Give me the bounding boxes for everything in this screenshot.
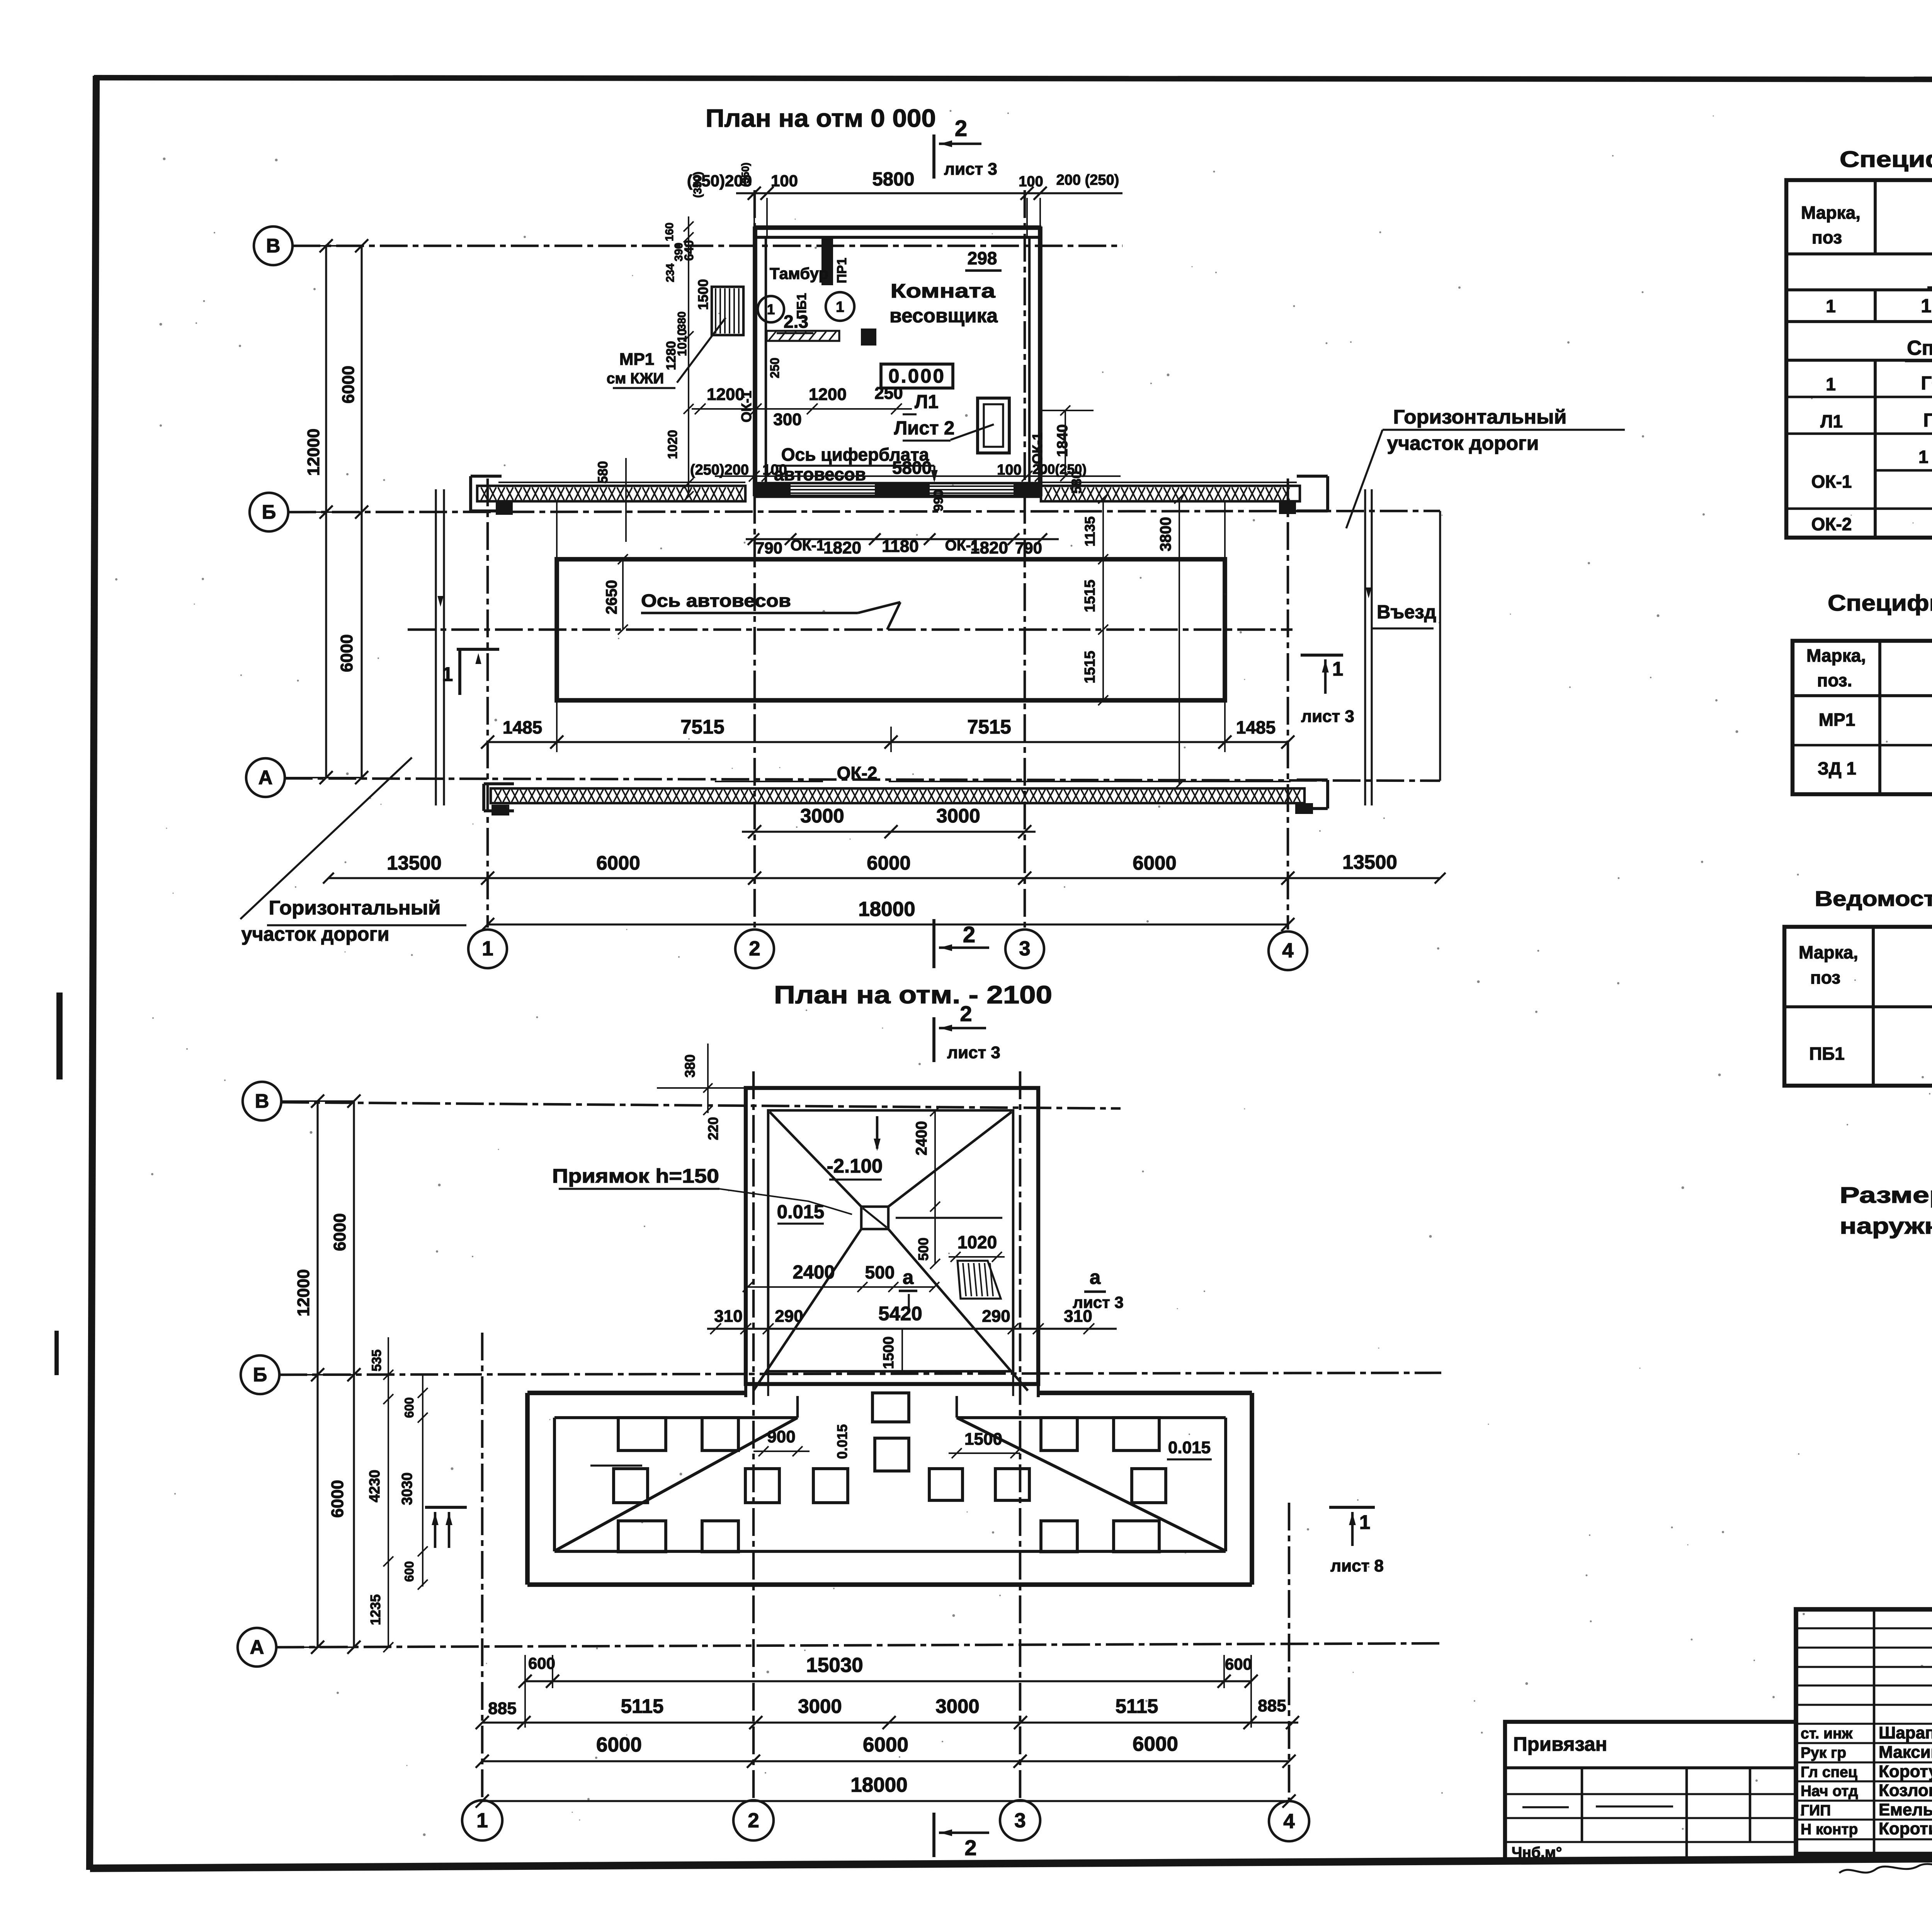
lower plan section marker 2 sheet 3 (top) [932, 1017, 935, 1062]
lower dim row 600 15030 600 [525, 1680, 1251, 1682]
table 1 horizontal lines [1786, 252, 1932, 255]
lower plan dim line 12000 (left) [316, 1101, 318, 1647]
sheet frame bottom border [90, 1855, 1932, 1868]
foundation notch verticals [796, 1396, 799, 1418]
svg-text:100: 100 [762, 462, 787, 478]
upper plan axis line В [293, 245, 1122, 247]
upper plan dim line 6000 segments (left) [361, 246, 362, 778]
svg-text:(250)200: (250)200 [690, 462, 749, 478]
svg-text:6000: 6000 [867, 852, 910, 874]
upper plan section marker 2 sheet 3 (top) [932, 134, 935, 179]
svg-text:250: 250 [874, 384, 903, 403]
svg-text:(350): (350) [692, 172, 704, 198]
table 1 outer box [1786, 180, 1932, 538]
svg-text:ОК-1: ОК-1 [791, 537, 825, 554]
svg-text:ПБ1: ПБ1 [1809, 1044, 1845, 1064]
svg-text:2.3: 2.3 [784, 312, 808, 332]
scan streak left edge lower [54, 1331, 59, 1375]
svg-text:Коротун: Коротун [1879, 1762, 1932, 1781]
upper plan axis line А [285, 778, 1440, 781]
band Б left end bracket [469, 476, 472, 511]
table 1 vertical lines header [1874, 180, 1877, 254]
foundation diagonal left [555, 1418, 798, 1551]
dim 3800 vertical [1179, 499, 1180, 785]
svg-text:ОК-1: ОК-1 [738, 391, 754, 422]
lower plan small dim column 600 3030 600 [422, 1375, 423, 1587]
upper plan column circle 1 [468, 930, 507, 968]
svg-text:1500: 1500 [881, 1336, 897, 1369]
title block signature grid horizontals [1796, 1627, 1932, 1629]
svg-text:1.038 1 - 1, вып. 1: 1.038 1 - 1, вып. 1 [1921, 296, 1932, 317]
section mark 1 (left of platform) [457, 648, 499, 651]
svg-text:лист 8: лист 8 [1330, 1556, 1384, 1575]
svg-text:Ось автовесов: Ось автовесов [641, 591, 791, 611]
svg-text:Марка,: Марка, [1801, 203, 1861, 223]
svg-text:Чнб,м°: Чнб,м° [1512, 1844, 1562, 1861]
tambour partition pier [821, 238, 833, 285]
svg-text:Л1: Л1 [1820, 411, 1843, 431]
svg-text:6000: 6000 [328, 1480, 347, 1518]
svg-text:План на отм 0 000: План на отм 0 000 [706, 104, 936, 132]
upper plan axis circle В [254, 226, 293, 265]
band А right end bracket [1326, 780, 1329, 809]
privyazan dashes [1522, 1806, 1569, 1808]
svg-text:лист 3: лист 3 [944, 160, 997, 179]
svg-text:6000: 6000 [330, 1213, 349, 1251]
grille МР1 hatched rect [712, 287, 743, 335]
svg-text:6000: 6000 [337, 634, 356, 672]
svg-text:18000: 18000 [850, 1774, 907, 1796]
svg-text:весовщика: весовщика [889, 305, 998, 327]
lower plan axis circle А [238, 1628, 276, 1667]
svg-text:автовесов: автовесов [774, 464, 866, 484]
svg-text:6000: 6000 [596, 852, 640, 874]
svg-text:12000: 12000 [294, 1269, 313, 1316]
svg-text:6000: 6000 [863, 1733, 908, 1756]
upper plan column circle 2 [735, 930, 774, 968]
upper plan dim line 12000 (left) [325, 246, 327, 778]
svg-text:5800: 5800 [892, 458, 932, 478]
upper plan column circle 3 [1005, 930, 1044, 968]
hatch luk Л1 rectangle [978, 398, 1009, 453]
lower plan dim line 6000 segments (left) [353, 1101, 355, 1647]
svg-text:Марка,: Марка, [1806, 645, 1866, 666]
svg-text:300: 300 [773, 410, 801, 429]
platform edge extension lines [556, 501, 558, 559]
svg-text:2650: 2650 [603, 580, 620, 615]
svg-text:298: 298 [968, 248, 997, 268]
svg-text:5115: 5115 [1116, 1695, 1158, 1717]
sheet frame left border [90, 76, 96, 1870]
foundation small dash left [590, 1464, 642, 1466]
svg-text:6000: 6000 [596, 1733, 642, 1756]
svg-text:13500: 13500 [387, 852, 442, 874]
pit diagonal top-left [770, 1112, 861, 1207]
svg-text:0.015: 0.015 [834, 1424, 850, 1459]
svg-text:лист 3: лист 3 [947, 1043, 1000, 1062]
svg-text:1280: 1280 [664, 341, 679, 370]
svg-text:15030: 15030 [806, 1654, 863, 1677]
svg-text:4: 4 [1282, 939, 1294, 962]
svg-text:18000: 18000 [858, 898, 915, 921]
lower plan axis line В [281, 1102, 1121, 1108]
svg-text:1: 1 [1332, 658, 1343, 680]
svg-text:2: 2 [960, 1001, 972, 1026]
svg-text:7515: 7515 [967, 716, 1011, 738]
svg-text:Тамбур: Тамбур [770, 264, 828, 283]
footing squares [618, 1418, 666, 1451]
svg-text:2400: 2400 [793, 1262, 835, 1283]
svg-text:250: 250 [768, 358, 782, 378]
upper dim row 13500 6000 6000 6000 13500 [328, 877, 1440, 879]
window band OK-2 along А hatched [491, 788, 1304, 803]
pit outer wall rectangle [746, 1088, 1038, 1384]
lower plan axis line А [276, 1643, 1441, 1647]
svg-text:160: 160 [663, 223, 676, 241]
svg-text:1: 1 [1826, 374, 1836, 394]
svg-text:2400: 2400 [913, 1121, 930, 1156]
svg-text:3800: 3800 [1157, 517, 1174, 552]
svg-text:2: 2 [964, 1835, 976, 1860]
svg-text:2: 2 [955, 116, 967, 141]
svg-text:1020: 1020 [665, 430, 680, 459]
svg-text:Размеры в скобках даны для: Размеры в скобках даны для температуры [1840, 1183, 1932, 1208]
svg-text:1: 1 [836, 299, 844, 315]
svg-text:Б: Б [262, 501, 276, 523]
svg-text:535: 535 [369, 1350, 384, 1372]
svg-text:см КЖИ: см КЖИ [607, 370, 664, 387]
axis mark circle 1 (left) [758, 296, 784, 322]
svg-text:600: 600 [402, 1397, 416, 1418]
svg-text:1180: 1180 [882, 537, 918, 556]
svg-text:Б: Б [253, 1364, 267, 1386]
dim 2650 vertical [622, 559, 624, 630]
building bottom wall with windows OK-1 [753, 482, 1041, 485]
svg-text:500: 500 [865, 1262, 895, 1282]
svg-text:100: 100 [771, 172, 798, 190]
svg-text:Коротин: Коротин [1879, 1819, 1932, 1838]
svg-text:ЗД 1: ЗД 1 [1818, 758, 1856, 778]
svg-text:МР1: МР1 [619, 350, 654, 369]
svg-text:900: 900 [767, 1427, 795, 1446]
interior pier block [861, 329, 876, 346]
foundation inner edge top left [554, 1416, 798, 1419]
svg-text:Ведомость перемычек: Ведомость перемычек [1815, 887, 1932, 911]
pit centre sump square (приямок) [861, 1207, 888, 1229]
svg-text:лист 3: лист 3 [1301, 707, 1354, 726]
svg-text:а: а [903, 1266, 914, 1288]
svg-text:Горизонтальный: Горизонтальный [269, 897, 441, 919]
svg-text:Марка,: Марка, [1799, 942, 1858, 962]
svg-text:1: 1 [482, 937, 493, 960]
svg-text:100: 100 [997, 462, 1021, 478]
svg-text:1020: 1020 [957, 1232, 997, 1252]
window dim row 790 1820 1180 1820 790 [746, 538, 1059, 540]
upper plan axis circle Б [250, 493, 288, 531]
svg-text:310: 310 [714, 1307, 742, 1326]
svg-text:поз.: поз. [1817, 670, 1852, 690]
foundation inner edge top right [957, 1416, 1226, 1419]
pit diagonal top-right [888, 1112, 1012, 1207]
svg-text:План на отм. - 2100: План на отм. - 2100 [774, 981, 1052, 1009]
svg-text:А: А [259, 766, 273, 788]
svg-text:ОК-1: ОК-1 [1029, 432, 1045, 464]
svg-text:Привязан: Привязан [1513, 1733, 1607, 1755]
svg-text:5420: 5420 [878, 1302, 922, 1325]
upper plan axis circle А [246, 758, 285, 797]
svg-text:380: 380 [676, 312, 688, 330]
svg-text:6000: 6000 [1133, 852, 1176, 874]
svg-text:Н контр: Н контр [1801, 1821, 1858, 1838]
svg-text:ПР1: ПР1 [835, 258, 849, 283]
svg-text:6000: 6000 [1133, 1733, 1178, 1755]
svg-text:В: В [255, 1090, 269, 1112]
lower plan column line 3 [1019, 1071, 1022, 1799]
svg-text:5800: 5800 [872, 169, 914, 190]
svg-text:6000: 6000 [339, 366, 358, 403]
svg-text:13500: 13500 [1342, 851, 1397, 873]
svg-text:Горизонтальный: Горизонтальный [1393, 406, 1567, 428]
upper plan column line 3 [1024, 190, 1026, 928]
svg-text:1: 1 [1826, 296, 1836, 316]
dim row 1200 1200 250 [692, 408, 912, 410]
upper plan bottom section marker 2 [932, 919, 935, 968]
svg-text:885: 885 [488, 1699, 516, 1718]
svg-text:1: 1 [1359, 1511, 1370, 1533]
svg-text:3000: 3000 [798, 1695, 842, 1717]
foundation outer rectangle [527, 1391, 746, 1395]
lower dim row 885 5115 3000 3000 5115 885 [482, 1721, 1298, 1723]
svg-text:234: 234 [664, 264, 677, 282]
building left wall [753, 226, 757, 496]
upper plan column line 1 [486, 478, 489, 928]
privyazan box lines [1505, 1766, 1796, 1769]
lower plan column circle 2 [733, 1800, 774, 1840]
svg-text:Спецификация перемычек и за: Спецификация перемычек и заполнения прое… [1840, 147, 1932, 172]
svg-text:а: а [1090, 1266, 1101, 1288]
retaining wall band along Б (left) hatched [498, 482, 745, 483]
svg-text:290: 290 [775, 1307, 803, 1326]
scrawl below title block [1839, 1864, 1932, 1873]
lower plan section mark 1 (left, double arrow) [425, 1506, 467, 1509]
lower interior dimension row [715, 475, 1121, 477]
foundation inner edge bottom [554, 1550, 1226, 1553]
svg-text:В: В [266, 235, 281, 257]
lower plan column line 4 [1288, 1503, 1291, 1800]
table 2 horizontal lines [1793, 694, 1932, 697]
svg-text:1200: 1200 [809, 385, 847, 404]
title block signature grid verticals [1873, 1609, 1876, 1854]
table 3 divider and header line [1872, 927, 1875, 1086]
elevation box 0.000 [881, 364, 953, 388]
axis mark circle 1 (right) [826, 292, 854, 321]
svg-text:790: 790 [1015, 539, 1042, 557]
svg-text:990: 990 [931, 490, 946, 512]
svg-text:Гл спец: Гл спец [1801, 1764, 1857, 1781]
svg-text:3000: 3000 [935, 1695, 979, 1717]
svg-text:1840: 1840 [1054, 424, 1071, 457]
svg-text:1485: 1485 [503, 717, 542, 737]
svg-text:1500: 1500 [964, 1430, 1002, 1449]
table 3 outer box [1784, 927, 1932, 1086]
pit dim 500 vertical [934, 1207, 936, 1264]
extension line left of building [625, 458, 627, 542]
svg-text:12000: 12000 [304, 429, 323, 476]
svg-text:Нач отд: Нач отд [1801, 1783, 1858, 1800]
upper plan column circle 4 [1269, 931, 1307, 970]
svg-text:2: 2 [748, 1809, 759, 1832]
lower plan bottom section marker 2 [932, 1813, 935, 1857]
svg-text:поз: поз [1810, 967, 1840, 987]
svg-text:1485: 1485 [1236, 717, 1276, 737]
pit inner wall rectangle [768, 1110, 1013, 1371]
lower plan column circle 3 [1000, 1800, 1040, 1840]
svg-text:2: 2 [963, 922, 975, 947]
svg-text:220: 220 [705, 1117, 721, 1140]
svg-text:1: 1 [767, 301, 775, 317]
pit wall extensions into foundation [744, 1384, 747, 1397]
lower dim row 6000 6000 6000 [482, 1760, 1289, 1762]
svg-text:2: 2 [749, 937, 760, 960]
lower plan axis circle Б [241, 1355, 279, 1394]
svg-text:380: 380 [682, 1054, 698, 1078]
svg-text:1135: 1135 [1082, 516, 1098, 546]
svg-text:200 (250): 200 (250) [1056, 172, 1119, 188]
svg-text:3: 3 [1014, 1809, 1026, 1832]
svg-text:ГИП: ГИП [1801, 1802, 1831, 1819]
lower plan small dim column 535 4230 1235 [388, 1337, 389, 1647]
svg-text:Шарапова: Шарапова [1879, 1723, 1932, 1742]
lower plan axis line Б [279, 1373, 1441, 1375]
lower plan column line 2 [752, 1071, 755, 1799]
foundation inner edge right [1224, 1418, 1227, 1551]
svg-text:1515: 1515 [1082, 651, 1098, 684]
weighbridge platform rectangle [557, 559, 1225, 700]
svg-text:Козлов: Козлов [1879, 1781, 1932, 1800]
upper plan axis line Б [288, 511, 1440, 512]
svg-text:3: 3 [1019, 937, 1030, 960]
svg-text:ОК-1: ОК-1 [1811, 472, 1852, 492]
table 1 vertical lines body [1874, 290, 1877, 322]
svg-text:790: 790 [755, 539, 782, 557]
svg-text:Спецификация заполнения прое: Спецификация заполнения проемов [1907, 337, 1932, 359]
upper dim row 3000 3000 [742, 831, 1036, 833]
pit diagonal bottom-right [888, 1229, 1028, 1391]
pit dim row 2400 500 [746, 1286, 935, 1288]
svg-text:Л1: Л1 [915, 392, 939, 412]
svg-text:Приямок h=150: Приямок h=150 [552, 1165, 719, 1187]
svg-text:Рук гр: Рук гр [1801, 1745, 1846, 1761]
svg-text:1820: 1820 [823, 538, 861, 557]
foundation inner edge left [553, 1418, 556, 1551]
svg-text:600: 600 [402, 1561, 416, 1582]
upper dim row 18000 [488, 923, 1288, 925]
svg-text:1 136 5 - 16, часть 1: 1 136 5 - 16, часть 1 [1918, 447, 1932, 467]
svg-text:1515: 1515 [1082, 580, 1098, 613]
band А left end bracket [482, 784, 485, 811]
band Б right end bracket [1326, 476, 1329, 511]
building top wall [753, 225, 1041, 230]
foundation diagonal right [957, 1418, 1225, 1551]
lower plan column line 1 [481, 1333, 484, 1799]
lower dim row 18000 [482, 1800, 1289, 1802]
svg-text:Комната: Комната [891, 280, 996, 302]
lower section mark 1 лист 8 (right) [1329, 1506, 1375, 1509]
svg-text:1820: 1820 [970, 538, 1008, 557]
pit diagonal bottom-left [753, 1229, 861, 1391]
svg-text:МР1: МР1 [1819, 710, 1855, 730]
svg-text:600: 600 [528, 1654, 555, 1672]
svg-text:участок дороги: участок дороги [1387, 432, 1539, 454]
pit dim 1500 vertical below [901, 1329, 903, 1371]
svg-text:Емельянов: Емельянов [1879, 1800, 1932, 1819]
svg-text:ОК-2: ОК-2 [1811, 514, 1852, 534]
privyazan box outer [1505, 1722, 1796, 1861]
pit dim 2400 vertical right [934, 1111, 936, 1207]
svg-text:наружного воздуха минус 40°с: наружного воздуха минус 40°с [1840, 1214, 1932, 1239]
svg-text:3000: 3000 [800, 805, 844, 827]
svg-text:1: 1 [442, 663, 453, 685]
svg-text:Лист 2: Лист 2 [894, 418, 955, 439]
svg-text:100: 100 [1019, 174, 1043, 190]
upper plan column line 2 [753, 190, 756, 928]
table 2 outer box [1793, 641, 1932, 794]
svg-text:1: 1 [476, 1809, 488, 1832]
section mark 1 лист 3 (right) [1301, 654, 1343, 657]
svg-text:3000: 3000 [936, 805, 980, 827]
svg-text:4230: 4230 [367, 1470, 383, 1503]
svg-text:500: 500 [915, 1238, 931, 1261]
svg-text:поз: поз [1812, 227, 1842, 247]
tambour partition wall hatched [767, 331, 839, 341]
lower plan axis circle В [243, 1082, 281, 1120]
svg-text:(350): (350) [740, 162, 751, 187]
svg-text:-2.100: -2.100 [827, 1155, 883, 1177]
svg-text:600: 600 [1225, 1655, 1252, 1673]
retaining wall band along Б (right) hatched [1041, 482, 1297, 483]
arrow into pit [876, 1116, 879, 1149]
scan streak left edge upper [56, 993, 63, 1079]
svg-text:1235: 1235 [367, 1594, 383, 1625]
upper plan column line 4 [1287, 478, 1289, 930]
svg-text:885: 885 [1258, 1696, 1286, 1715]
pit horizontal line right of sump [896, 1217, 1002, 1219]
svg-text:Спецификация металлических э: Спецификация металлических элементов [1828, 591, 1932, 616]
svg-text:Въезд: Въезд [1377, 602, 1436, 623]
building right wall [1038, 226, 1043, 496]
dim column 1135 1515 1515 [1102, 499, 1104, 700]
lower plan column circle 4 [1269, 1801, 1309, 1841]
left rotated dim stack [688, 216, 689, 496]
title block outer box [1796, 1609, 1932, 1854]
upper plan right boundary line [1439, 511, 1441, 781]
svg-text:ГОСТ 24698 - 81: ГОСТ 24698 - 81 [1923, 410, 1932, 431]
pit dim row 310 290 5420 290 310 [707, 1328, 1117, 1330]
svg-text:0.015: 0.015 [777, 1202, 825, 1222]
upper dim row 1485 7515 7515 1485 [488, 741, 1288, 743]
road edge lines left [435, 489, 437, 805]
svg-text:310: 310 [1064, 1307, 1092, 1326]
upper plan top dimension row [736, 192, 1122, 194]
table 2 vertical lines [1878, 641, 1881, 794]
sheet frame top border [94, 78, 1932, 80]
svg-text:5115: 5115 [621, 1695, 664, 1717]
svg-text:4: 4 [1283, 1810, 1295, 1833]
svg-text:3030: 3030 [399, 1473, 415, 1505]
svg-text:Максимов: Максимов [1879, 1743, 1932, 1762]
svg-text:290: 290 [982, 1307, 1010, 1326]
lower plan column circle 1 [462, 1800, 502, 1840]
